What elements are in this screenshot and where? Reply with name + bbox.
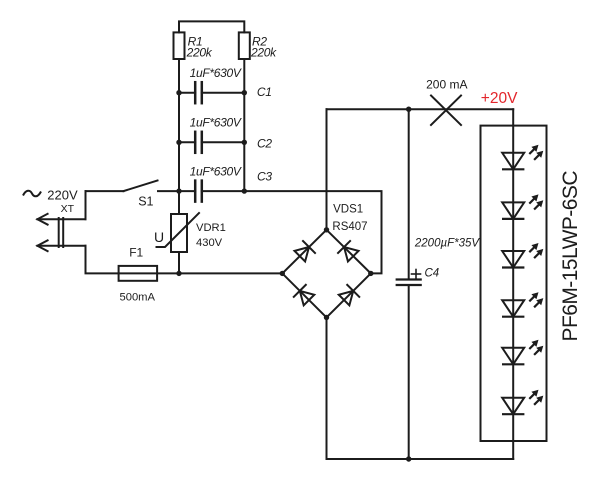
svg-text:220k: 220k — [186, 46, 213, 60]
wire bridge top node up — [326, 109, 328, 230]
wire top connecting R1 and R2 — [179, 21, 244, 32]
svg-text:220k: 220k — [250, 46, 277, 60]
svg-text:C4: C4 — [425, 267, 440, 279]
svg-text:+20V: +20V — [481, 90, 518, 107]
svg-text:VDR1: VDR1 — [196, 222, 226, 234]
node C3 left — [176, 188, 181, 193]
LED D4 — [502, 292, 543, 317]
svg-text:500mA: 500mA — [120, 291, 156, 303]
switch S1 — [86, 181, 180, 192]
fuse F1 — [119, 266, 283, 281]
node VDR1/F1 — [176, 271, 181, 276]
resistor R1 — [174, 32, 185, 59]
wire bridge bottom node down to bottom rail — [327, 318, 514, 460]
LED D1 — [502, 145, 543, 170]
capacitor C1 — [179, 82, 244, 103]
svg-text:C1: C1 — [257, 85, 272, 99]
LED D2 — [502, 194, 543, 219]
svg-text:C2: C2 — [257, 137, 272, 151]
node C1 left — [176, 90, 181, 95]
diode top-right — [338, 241, 359, 262]
svg-text:220V: 220V — [47, 188, 78, 203]
resistor R2 — [239, 32, 250, 59]
svg-text:VDS1: VDS1 — [333, 204, 363, 216]
AC tilde symbol — [23, 191, 41, 197]
svg-text:2200µF*35V: 2200µF*35V — [414, 237, 481, 249]
svg-text:430V: 430V — [196, 237, 223, 249]
wire left column R1 bottom to C3 row — [178, 59, 180, 191]
node bridge left — [280, 271, 285, 276]
node C2 right — [242, 140, 247, 145]
capacitor C3 — [179, 181, 244, 202]
LED D6 — [502, 390, 543, 415]
node bridge top — [324, 227, 329, 232]
diode top-left — [294, 241, 315, 262]
wire right column R2 bottom to C3 row — [243, 59, 245, 191]
diode bottom-left — [294, 285, 315, 306]
varistor VDR1 — [157, 191, 200, 273]
node C4 bottom — [406, 456, 411, 461]
svg-text:PF6M-15LWP-6SC: PF6M-15LWP-6SC — [559, 171, 582, 342]
node bridge right — [368, 271, 373, 276]
wire plug bottom to fuse row — [86, 246, 119, 274]
svg-text:C3: C3 — [257, 170, 272, 184]
fuse link X 200mA — [431, 96, 461, 126]
svg-text:XT: XT — [61, 203, 75, 215]
diode bottom-right — [338, 285, 359, 306]
LED D3 — [502, 243, 543, 268]
wire C3 row to bridge right node — [244, 191, 381, 273]
node bridge bottom — [324, 315, 329, 320]
wire +20V rail — [327, 108, 514, 110]
wire plug top to S1 — [85, 191, 87, 219]
svg-text:S1: S1 — [138, 195, 153, 209]
node C1 right — [242, 90, 247, 95]
connector XT bottom pin — [37, 240, 85, 251]
svg-text:1uF*630V: 1uF*630V — [190, 66, 242, 80]
capacitor C4 — [397, 109, 421, 459]
connector XT top pin — [37, 214, 85, 225]
svg-text:RS407: RS407 — [332, 221, 367, 233]
svg-text:1uF*630V: 1uF*630V — [190, 116, 242, 130]
node C2 left — [176, 140, 181, 145]
svg-text:1uF*630V: 1uF*630V — [190, 165, 242, 179]
LED D5 — [502, 340, 543, 365]
svg-text:F1: F1 — [129, 246, 143, 260]
LED symbols — [502, 145, 543, 414]
bridge rectifier VDS1 edges — [282, 230, 371, 318]
capacitor C2 — [179, 132, 244, 153]
node C3 right — [242, 188, 247, 193]
plus sign of C4 — [412, 270, 421, 279]
LED chain wire — [512, 109, 514, 459]
svg-text:200 mA: 200 mA — [426, 78, 467, 92]
LED module box PF6M-15LWP-6SC — [481, 126, 547, 441]
node C4 top — [406, 107, 411, 112]
connector XT bars — [59, 218, 64, 247]
svg-text:U: U — [154, 229, 164, 245]
